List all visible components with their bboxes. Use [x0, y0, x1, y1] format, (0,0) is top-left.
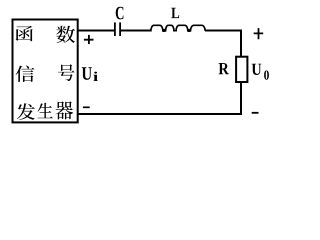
label 数 [56, 26, 75, 43]
polarity + at output [254, 28, 264, 39]
inductor winding junction dot [188, 29, 191, 32]
label 函 [16, 26, 33, 41]
signal generator box [13, 20, 78, 123]
label 器 [55, 101, 72, 119]
wire: resistor to bottom rail [240, 82, 242, 115]
inductor winding junction dot [163, 29, 166, 32]
value label C [116, 7, 124, 20]
polarity - at input [83, 106, 90, 108]
label 发 [17, 103, 35, 120]
label 号 [58, 64, 74, 81]
wire: capacitor to inductor [121, 30, 151, 32]
value label R [219, 63, 229, 74]
node label Uo [252, 64, 262, 75]
wire: bottom return rail [78, 113, 242, 115]
wire: inductor to output corner [205, 30, 242, 32]
label 生 [37, 103, 52, 118]
capacitor C1 plate right [119, 22, 121, 36]
inductor L1 winding [146, 25, 205, 30]
polarity - at output [252, 112, 259, 114]
wire: down to resistor [240, 30, 242, 57]
wire: generator to capacitor [78, 30, 115, 32]
label 信 [16, 66, 35, 82]
polarity + at input [84, 35, 94, 44]
resistor R1 body [236, 57, 247, 82]
node label Ui [82, 67, 92, 80]
value label L [171, 8, 179, 18]
capacitor C1 plate left [114, 22, 116, 36]
